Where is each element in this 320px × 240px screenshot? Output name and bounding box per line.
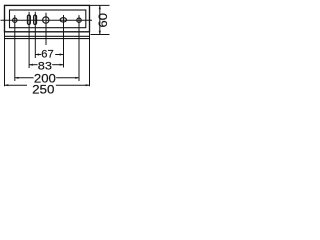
svg-text:83: 83 <box>38 60 52 72</box>
200 dimension line <box>15 77 34 79</box>
60 dimension line <box>99 5 101 34</box>
svg-text:60: 60 <box>98 13 110 28</box>
67 arrow right <box>60 53 64 55</box>
svg-text:250: 250 <box>32 83 55 97</box>
bottom extension to 60 dim <box>91 34 110 36</box>
250 dimension line <box>5 84 28 86</box>
60 dim arrow down <box>99 31 101 35</box>
left edge extension line <box>4 32 6 86</box>
right edge extension line <box>89 32 91 86</box>
side view bottom line <box>5 38 90 40</box>
inner rectangle <box>10 10 86 28</box>
outer body rectangle (plan view) <box>5 5 90 31</box>
screw hole left centerline <box>14 15 16 81</box>
200 arrow right <box>75 77 79 79</box>
250 arrow right <box>86 84 90 86</box>
67 arrow left <box>35 53 39 55</box>
svg-text:67: 67 <box>41 49 53 61</box>
screw hole left <box>13 18 17 22</box>
oval hole centerline <box>63 15 65 68</box>
slot 1 centerline <box>28 12 30 68</box>
83 arrow right <box>60 64 64 66</box>
slot 1 <box>27 15 30 25</box>
knockout hole centerline <box>45 13 47 45</box>
centerline <box>1 19 93 21</box>
screw hole right <box>77 18 81 22</box>
67 dimension line <box>35 54 41 56</box>
oval hole <box>60 18 66 22</box>
side view top line <box>5 35 90 37</box>
slot 2 <box>34 15 37 25</box>
250 arrow left <box>5 84 9 86</box>
slot 2 centerline <box>34 12 36 58</box>
60 dim arrow up <box>99 5 101 9</box>
screw hole right centerline <box>78 15 80 81</box>
top edge extension to 60 dim <box>90 4 110 6</box>
83 dimension line <box>29 64 37 66</box>
83 arrow left <box>29 64 33 66</box>
200 arrow left <box>15 77 19 79</box>
knockout hole <box>43 17 49 23</box>
